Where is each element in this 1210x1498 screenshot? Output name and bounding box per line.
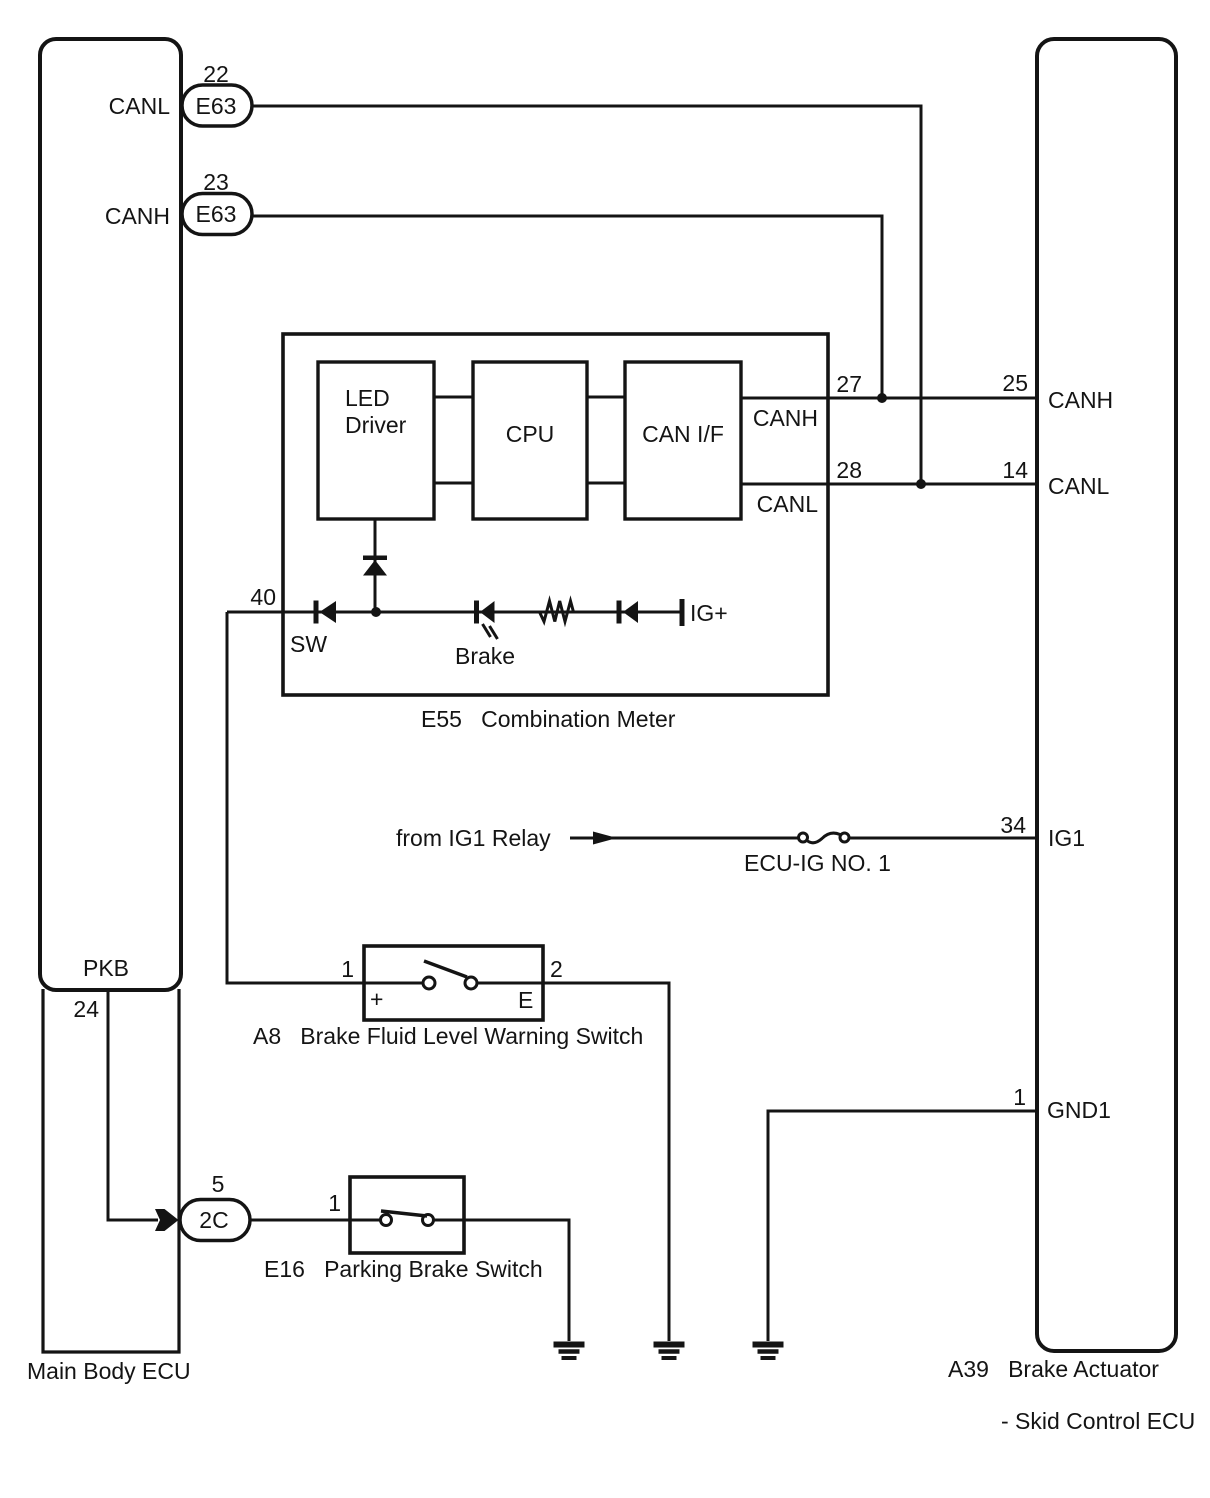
junction dot lamp node: [371, 607, 381, 617]
svg-text:CANL: CANL: [757, 491, 819, 517]
svg-text:2: 2: [550, 956, 563, 982]
svg-text:ECU-IG NO. 1: ECU-IG NO. 1: [744, 850, 891, 876]
LED Driver block: [318, 362, 434, 519]
wire E16 to ground: [464, 1220, 569, 1341]
svg-text:CPU: CPU: [506, 421, 555, 447]
A8 switch contacts: [364, 961, 543, 989]
svg-text:CANL: CANL: [109, 93, 171, 119]
diode SW: [314, 601, 337, 624]
wire pin 40 down to brake fluid switch pin 1: [227, 612, 364, 983]
svg-text:PKB: PKB: [83, 955, 129, 981]
connector 2C: [180, 1200, 250, 1241]
arrow into 2C connector: [155, 1209, 179, 1231]
diode D2: [617, 601, 639, 624]
svg-text:1: 1: [1013, 1084, 1026, 1110]
svg-text:25: 25: [1002, 370, 1028, 396]
wire CANH from E63 pin23 to CANH bus: [252, 216, 882, 398]
svg-text:34: 34: [1000, 812, 1026, 838]
CAN I/F block: [625, 362, 741, 519]
wire lamp line from pin 40 to IG+: [227, 611, 681, 614]
svg-text:A8 Brake Fluid Level Warning: A8 Brake Fluid Level Warning Switch: [253, 1023, 643, 1049]
wire CANH bus from CAN I/F to Brake Actuator pin 25: [741, 397, 1037, 400]
svg-text:5: 5: [212, 1171, 225, 1197]
svg-text:CANH: CANH: [753, 405, 818, 431]
svg-text:LED: LED: [345, 385, 390, 411]
parking brake switch E16 box: [350, 1177, 464, 1253]
svg-text:23: 23: [203, 169, 229, 195]
svg-text:CANH: CANH: [105, 203, 170, 229]
LED Brake (diode): [474, 601, 498, 640]
svg-text:SW: SW: [290, 631, 327, 657]
svg-text:40: 40: [250, 584, 276, 610]
svg-text:CANL: CANL: [1048, 473, 1110, 499]
junction dot CANH: [877, 393, 887, 403]
svg-text:1: 1: [341, 956, 354, 982]
svg-text:+: +: [370, 986, 383, 1012]
svg-text:24: 24: [73, 996, 99, 1022]
svg-text:CANH: CANH: [1048, 387, 1113, 413]
svg-text:1: 1: [328, 1190, 341, 1216]
connector E63 (pin 23): [182, 194, 252, 235]
svg-text:E55 Combination Meter: E55 Combination Meter: [421, 706, 676, 732]
wire LED Driver to CPU (lower): [434, 482, 473, 485]
resistor R1: [540, 601, 574, 622]
svg-text:Brake: Brake: [455, 643, 515, 669]
wire CANL bus from CAN I/F to Brake Actuator pin 14: [741, 483, 1037, 486]
wire CPU to CAN I/F (upper): [587, 396, 625, 399]
E16 switch contacts: [350, 1211, 464, 1226]
svg-text:27: 27: [836, 371, 862, 397]
svg-text:E63: E63: [196, 93, 237, 119]
wire GND1 to ground: [768, 1111, 1037, 1341]
brake fluid level warning switch A8 box: [364, 946, 543, 1020]
arrow IG1 relay direction: [593, 832, 617, 845]
ground (parking brake switch): [554, 1345, 585, 1359]
wire IG1 relay feed: [570, 837, 1037, 840]
wire 2C to parking brake switch: [250, 1219, 350, 1222]
wire LED Driver to CPU (upper): [434, 396, 473, 399]
ground (GND1): [753, 1345, 784, 1359]
svg-text:14: 14: [1002, 457, 1028, 483]
fuse ECU-IG NO. 1: [799, 830, 850, 846]
wire A8 pin 2 to ground: [543, 983, 669, 1341]
svg-text:28: 28: [836, 457, 862, 483]
svg-text:22: 22: [203, 61, 229, 87]
svg-text:GND1: GND1: [1047, 1097, 1111, 1123]
svg-text:CAN I/F: CAN I/F: [642, 421, 724, 447]
svg-text:E16 Parking Brake Switch: E16 Parking Brake Switch: [264, 1256, 543, 1282]
CPU block: [473, 362, 587, 519]
junction dot CANL: [916, 479, 926, 489]
svg-text:IG1: IG1: [1048, 825, 1085, 851]
svg-text:E63: E63: [196, 201, 237, 227]
svg-text:A39 Brake Actuator: A39 Brake Actuator: [948, 1356, 1159, 1382]
connector E63 (pin 22): [182, 85, 252, 126]
svg-text:Driver: Driver: [345, 412, 407, 438]
svg-text:IG+: IG+: [690, 600, 728, 626]
E55 Combination Meter box: [283, 334, 828, 695]
svg-text:Main Body ECU: Main Body ECU: [27, 1358, 191, 1384]
diode D1 (vertical, to LED Driver): [363, 556, 387, 576]
ground (brake fluid switch): [654, 1345, 685, 1359]
svg-text:from IG1 Relay: from IG1 Relay: [396, 825, 551, 851]
wire CPU to CAN I/F (lower): [587, 482, 625, 485]
wire CANL from E63 pin22 to CANL bus: [252, 106, 921, 484]
wire LED Driver to lamp node: [374, 519, 377, 612]
svg-text:2C: 2C: [199, 1207, 228, 1233]
svg-text:- Skid Control ECU: - Skid Control ECU: [1001, 1408, 1195, 1434]
Main Body ECU box: [40, 39, 181, 1352]
IG+ terminal bar: [680, 599, 685, 626]
wire PKB pin 24 to 2C connector: [108, 988, 158, 1220]
Skid Control ECU (A39) box: [1037, 39, 1176, 1351]
svg-text:E: E: [518, 987, 533, 1013]
